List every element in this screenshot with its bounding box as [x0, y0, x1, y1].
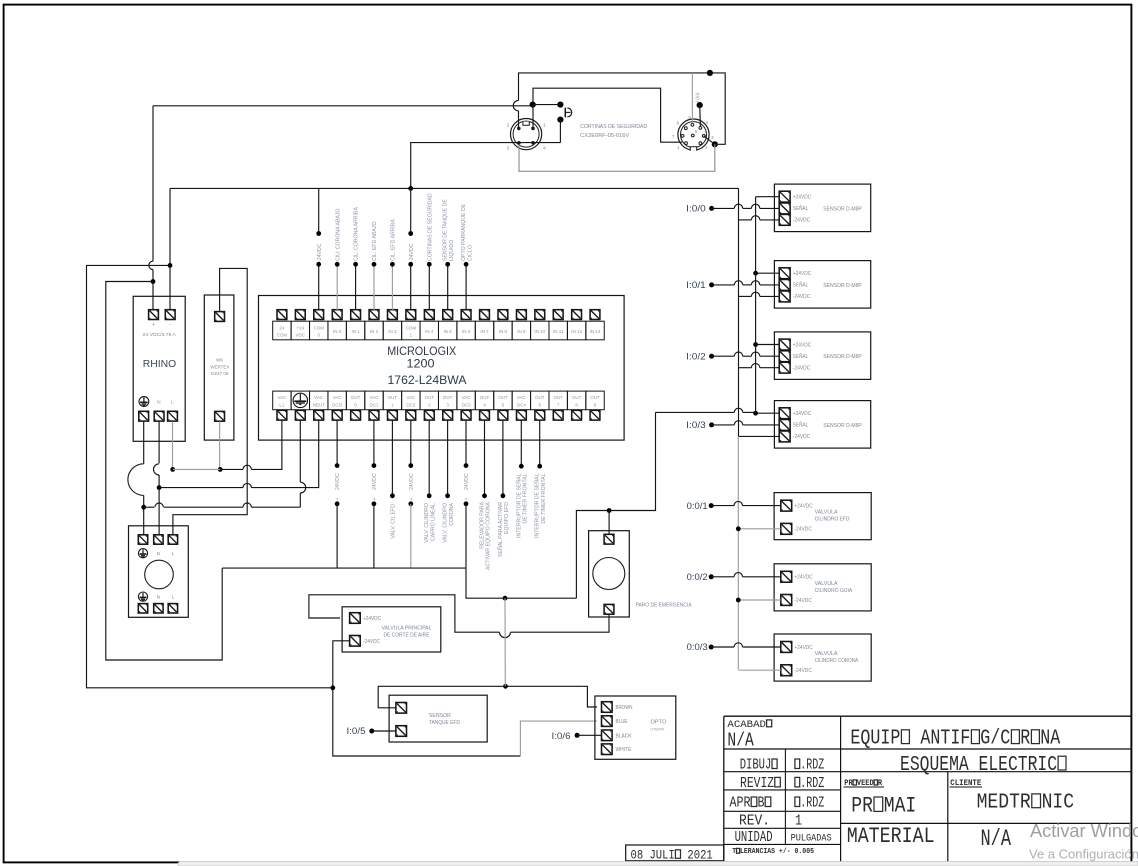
svg-text:L1: L1 — [279, 402, 285, 407]
svg-text:OPTO PARRANQUE DE: OPTO PARRANQUE DE — [461, 203, 467, 261]
wire I:0/3 signal with hops — [712, 424, 735, 426]
svg-text:I:0/0: I:0/0 — [686, 204, 706, 214]
svg-text:EQUIPO EFD: EQUIPO EFD — [504, 502, 510, 534]
wire -24V left loop to valve node — [87, 265, 331, 687]
svg-text:+: + — [464, 497, 470, 500]
svg-text:6: 6 — [677, 121, 680, 126]
wire PS1 N down to inlet N — [158, 422, 160, 464]
svg-text:ACTIVAR EQUIPO CORONA: ACTIVAR EQUIPO CORONA — [486, 501, 492, 569]
svg-text:4: 4 — [706, 120, 709, 125]
svg-text:4: 4 — [543, 146, 546, 152]
svg-text:VAC: VAC — [406, 395, 416, 400]
wire grey riser to OPTO BLUE — [520, 721, 597, 756]
svg-text:BROWN: BROWN — [616, 705, 633, 711]
svg-text:-24VDC: -24VDC — [794, 598, 812, 604]
svg-text:PULGADAS: PULGADAS — [791, 832, 832, 844]
svg-text:INTERRUPTOR DE SEÑAL: INTERRUPTOR DE SEÑAL — [515, 473, 522, 538]
wire 0:0/1 to +24 terminal with hop — [711, 505, 734, 507]
svg-text:N/A: N/A — [727, 731, 754, 752]
wire X2 pin4 I 0/4 stub — [699, 105, 702, 126]
wire +24V loop around inlet to DC rail — [106, 282, 222, 661]
svg-text:CIL. EFD ARRIBA: CIL. EFD ARRIBA — [391, 219, 397, 261]
svg-text:IN 9: IN 9 — [517, 329, 526, 334]
svg-text:-24VDC: -24VDC — [793, 434, 811, 440]
svg-text:-24VDC: -24VDC — [363, 639, 380, 645]
svg-text:CILINDRO CORONA: CILINDRO CORONA — [815, 658, 859, 664]
svg-text:I:0/2: I:0/2 — [686, 351, 706, 361]
svg-text:0:0/2: 0:0/2 — [687, 572, 708, 582]
svg-text:IN 2: IN 2 — [370, 329, 379, 334]
svg-text:IN 8: IN 8 — [499, 329, 508, 334]
title text APROBO O.RDZ — [730, 794, 772, 811]
title text EQUIPO ANTIFOG/CORONA — [850, 726, 1060, 750]
wire OUT5 grey drop to y686 — [504, 598, 506, 686]
svg-text:CARRO LINEAL: CARRO LINEAL — [430, 503, 436, 541]
svg-text:2: 2 — [705, 145, 708, 150]
svg-text:IN 13: IN 13 — [590, 329, 601, 334]
AC power inlet J1 body — [129, 526, 189, 618]
wire PS1 L grey down — [172, 422, 174, 470]
wire X2 pin5 grey drop — [691, 73, 693, 124]
svg-text:2: 2 — [507, 123, 510, 129]
wire Y1 -24 to -24 loop node and OPTO blue/white — [333, 641, 521, 756]
svg-text:IN 0: IN 0 — [333, 329, 342, 334]
svg-text:+: + — [335, 497, 341, 500]
wire S1 -24 feed with hop — [739, 295, 752, 297]
wire +24 feed to curtain top rail — [153, 105, 533, 107]
svg-text:24VDC: 24VDC — [335, 473, 341, 490]
wire VAC DC0 column +24VDC — [336, 420, 338, 465]
svg-text:CORTINAS DE SEGURIDAD: CORTINAS DE SEGURIDAD — [580, 124, 647, 130]
wire y686 to OPTO BROWN — [583, 686, 597, 707]
svg-text:0:0/3: 0:0/3 — [687, 642, 708, 652]
svg-text:+24VDC: +24VDC — [363, 616, 381, 622]
sensor B1 SENSOR TANQUE EFD body — [389, 695, 487, 742]
svg-text:L: L — [172, 595, 175, 600]
svg-text:N/A: N/A — [981, 827, 1012, 853]
wire net sensor +24VDC rail x755 — [755, 197, 757, 414]
wire OUT5 SENAL PARA ACTIVAR EQUIPO EFD — [502, 420, 504, 496]
svg-text:DE CORTE DE AIRE: DE CORTE DE AIRE — [384, 633, 431, 639]
PS1 input ground symbol — [139, 397, 149, 407]
wire OUT6 INTERRUPTOR DE SENAL DE TIMER FRONTAL — [539, 420, 541, 466]
sensor S1 I:0/1 SENSOR D-M8P body — [774, 261, 870, 309]
svg-text:VAC: VAC — [462, 395, 472, 400]
svg-text:BLACK: BLACK — [616, 733, 633, 739]
S1 terminal -24VDC — [779, 291, 790, 302]
svg-text:1: 1 — [795, 812, 802, 829]
PS1 output terminals + and - — [149, 310, 159, 320]
svg-text:MEDTR NIC: MEDTR NIC — [977, 791, 1074, 815]
wire net -24VDC rail x738 black part — [738, 188, 740, 436]
svg-text:ESQUEMA ELECTRIC: ESQUEMA ELECTRIC — [900, 752, 1067, 777]
svg-text:DZ47 06: DZ47 06 — [211, 371, 229, 376]
wire IN3 CIL. EFD ARRIBA — [391, 264, 393, 310]
svg-text:VALVULA: VALVULA — [815, 510, 839, 516]
wire CB1 bottom grey down — [219, 422, 221, 470]
S1 terminal +24VDC — [779, 268, 790, 279]
svg-text:SEÑAL PARA ACTIVAR: SEÑAL PARA ACTIVAR — [497, 502, 504, 557]
svg-text:OUT: OUT — [535, 395, 545, 400]
svg-text:SENSOR D-M8P: SENSOR D-M8P — [823, 354, 862, 360]
wire net -24VDC rail grey part — [737, 436, 739, 669]
wire PS1 gnd down with big arc — [143, 422, 145, 464]
wire X1 pin3 pin4 to COM1 node — [411, 143, 561, 189]
svg-text:+24VDC: +24VDC — [794, 503, 813, 509]
wire X2 pin3 stub — [704, 136, 715, 144]
svg-text:7: 7 — [672, 134, 675, 139]
sensor S2 I:0/2 SENSOR D-M8P body — [774, 332, 870, 380]
svg-text:IN 6: IN 6 — [462, 329, 471, 334]
solenoid valve V1 VALVULA CILINDRO EFD body — [774, 493, 871, 540]
wire PS1 minus riser to -24 rail — [169, 188, 171, 310]
svg-text:I:0/3: I:0/3 — [686, 420, 706, 430]
wire pushbutton branch — [533, 104, 561, 106]
wire IN1 CIL. CORONA ARRIBA — [355, 264, 357, 310]
svg-text:OPTO: OPTO — [650, 720, 666, 726]
wire S2 +24 feed — [756, 344, 780, 346]
svg-text:3: 3 — [711, 135, 714, 140]
title text TOLERANCIAS — [732, 848, 814, 857]
wire X1 pin2 riser and top rail y73 — [518, 111, 520, 128]
wire S3 -24 feed with hop — [739, 435, 780, 437]
svg-text:WERTEX: WERTEX — [210, 364, 229, 369]
svg-text:DC3: DC3 — [462, 402, 471, 407]
S3 terminal +24VDC — [779, 408, 790, 419]
V2 terminal -24VDC — [781, 595, 792, 606]
PLC top terminal squares 24COM..IN13 — [277, 310, 600, 320]
svg-text:WHITE: WHITE — [616, 747, 633, 753]
svg-text:SENSOR D-M8P: SENSOR D-M8P — [823, 206, 862, 212]
wire IN4 CORTINAS DE SEGURIDAD — [428, 264, 430, 310]
svg-text:VALV. CILINDRO: VALV. CILINDRO — [443, 503, 449, 543]
solenoid valve V2 VALVULA CILINDRO GUIA body — [774, 564, 871, 611]
svg-text:+24VDC: +24VDC — [794, 645, 813, 651]
svg-text:VALV. CILINDRO: VALV. CILINDRO — [424, 503, 430, 543]
scrollbar strip bottom — [178, 862, 1138, 866]
S2 terminal -24VDC — [779, 362, 790, 373]
SB2 bottom terminal — [604, 604, 614, 614]
S3 terminal SENAL — [779, 420, 790, 431]
svg-text:VAC: VAC — [370, 395, 380, 400]
B2 terminal WHITE — [602, 744, 613, 755]
wire IN5 SENSOR DE TANQUE DE LIQUIDO — [447, 264, 449, 310]
PLC top terminal label cells — [273, 321, 605, 340]
svg-text:N: N — [157, 551, 160, 556]
svg-text:24: 24 — [279, 325, 285, 330]
svg-text:-24VDC: -24VDC — [794, 527, 812, 533]
svg-text:1762-L24BWA: 1762-L24BWA — [388, 375, 467, 387]
svg-text:N: N — [157, 400, 161, 406]
svg-text:08 JULI 2021: 08 JULI 2021 — [631, 847, 713, 862]
B1 terminal upper — [396, 703, 407, 714]
S0 terminal -24VDC — [779, 214, 790, 225]
svg-text:-24VDC: -24VDC — [409, 243, 415, 262]
svg-text:5: 5 — [688, 115, 691, 120]
svg-text:+24VDC: +24VDC — [793, 342, 812, 348]
svg-text:COM: COM — [406, 325, 417, 330]
svg-text:VAC: VAC — [333, 395, 343, 400]
PLC U1 MicroLogix 1200 1762-L24BWA body — [259, 296, 625, 441]
J1 lower terminals GND N L — [138, 604, 147, 613]
wire X1 pin1 net over to X2 pin1 — [533, 88, 682, 142]
svg-text:OUT: OUT — [425, 395, 435, 400]
wire OUT1 VALV. CIL EFD — [391, 420, 393, 496]
svg-text:+24VDC: +24VDC — [793, 271, 812, 277]
title text MATERIAL — [847, 824, 935, 849]
S2 terminal SENAL — [779, 351, 790, 362]
CB1 bottom terminal — [215, 411, 225, 421]
svg-text:VAC: VAC — [314, 395, 324, 400]
wire 0:0/3 to +24 terminal with hop — [711, 646, 734, 648]
V1 terminal +24VDC — [781, 500, 792, 511]
wire OUT3 VALV CILINDRO CORONA — [447, 420, 449, 496]
J1 lower ground symbol and N L labels — [138, 592, 147, 601]
svg-text:SENSOR D-M8P: SENSOR D-M8P — [823, 423, 862, 429]
svg-text:I 0/4: I 0/4 — [696, 93, 702, 103]
svg-text:SEÑAL: SEÑAL — [793, 422, 809, 429]
svg-text:L: L — [172, 551, 175, 556]
svg-text:24VDC: 24VDC — [464, 473, 470, 490]
svg-text:Activar Windows: Activar Windows — [1030, 821, 1138, 841]
wire S0 -24 feed with hop — [739, 219, 752, 221]
wire OUT2 VALV CILINDRO CARRO LINEAL — [428, 420, 430, 496]
solenoid valve Y1 VALVULA PRINCIPAL DE CORTE DE AIRE body — [342, 607, 441, 652]
svg-text:OUT: OUT — [480, 395, 490, 400]
svg-text:1: 1 — [677, 145, 680, 150]
V3 terminal +24VDC — [781, 642, 792, 653]
title text PROMAI — [851, 794, 916, 819]
wire S3 +24 feed — [756, 412, 780, 414]
emergency stop SB2 PARO DE EMERGENCIA body — [589, 531, 630, 617]
svg-text:ACABAD: ACABAD — [727, 719, 772, 731]
B2 terminal BROWN — [602, 702, 613, 713]
svg-text:CORONA: CORONA — [449, 502, 455, 525]
svg-text:-24VDC: -24VDC — [794, 668, 812, 674]
svg-text:BLUE: BLUE — [616, 719, 629, 725]
svg-text:I:0/5: I:0/5 — [347, 726, 366, 736]
svg-text:I:0/1: I:0/1 — [686, 280, 706, 290]
svg-text:CICLO: CICLO — [467, 245, 473, 261]
svg-text:1200: 1200 — [407, 358, 435, 370]
power supply PS1 RHINO body — [133, 296, 185, 441]
svg-text:CILINDRO GUIA: CILINDRO GUIA — [815, 588, 853, 594]
PS1 input terminals GND N L — [139, 411, 149, 421]
svg-text:+: + — [409, 497, 415, 500]
Y1 terminal -24VDC — [350, 636, 361, 647]
title header PROVEEDOR — [844, 780, 882, 788]
V3 terminal -24VDC — [781, 665, 792, 676]
J1 plug circle — [145, 560, 174, 589]
J1 upper terminals GND N L — [138, 535, 147, 544]
svg-text:UNIDAD: UNIDAD — [735, 828, 773, 845]
svg-text:TANQUE EFD: TANQUE EFD — [429, 720, 460, 726]
svg-text:SENSOR DE TANQUE DE: SENSOR DE TANQUE DE — [443, 199, 449, 261]
S0 terminal +24VDC — [779, 191, 790, 202]
emergency contact SB1 on curtain circuit — [565, 108, 571, 118]
svg-text:VAC: VAC — [277, 395, 287, 400]
svg-text:PARO DE EMERGENCIA: PARO DE EMERGENCIA — [636, 603, 693, 609]
svg-text:EQUIP ANTIF G/C R NA: EQUIP ANTIF G/C R NA — [850, 726, 1060, 750]
wire V3 -24 grey feed — [738, 669, 781, 671]
svg-text:SEÑAL: SEÑAL — [793, 282, 809, 289]
svg-text:CIU. CORONA ABAJO: CIU. CORONA ABAJO — [335, 209, 341, 261]
V2 terminal +24VDC — [781, 571, 792, 582]
svg-text:DE TIMER FRONTAL: DE TIMER FRONTAL — [541, 473, 547, 523]
svg-text:24VDC: 24VDC — [372, 473, 378, 490]
svg-text:NEUT: NEUT — [313, 402, 326, 407]
svg-text:+24VDC: +24VDC — [793, 411, 812, 417]
svg-text:IN 10: IN 10 — [534, 329, 545, 334]
title text UNIDAD PULGADAS — [735, 828, 773, 845]
svg-text:DE TIMER FRONTAL: DE TIMER FRONTAL — [523, 473, 529, 523]
svg-text:IN 1: IN 1 — [351, 329, 360, 334]
svg-text:OUT: OUT — [590, 395, 600, 400]
SB2 top terminal — [604, 534, 614, 544]
svg-text:OUT: OUT — [498, 395, 508, 400]
svg-text:-24VDC: -24VDC — [793, 366, 811, 372]
wire I:0/2 signal with hops — [712, 355, 735, 357]
svg-text:+: + — [372, 497, 378, 500]
svg-text:I:0/6: I:0/6 — [552, 731, 571, 741]
svg-text:SEÑAL: SEÑAL — [793, 353, 809, 360]
svg-text:PR MAI: PR MAI — [851, 794, 916, 819]
connector X1 left safety curtain 4-pin — [510, 119, 541, 150]
svg-text:WK: WK — [216, 358, 223, 363]
wire S0 +24 feed — [756, 196, 780, 198]
wire y598 up to y510 line to PARO and sensors — [576, 412, 655, 598]
svg-text:RELEVADOR PARA: RELEVADOR PARA — [480, 501, 486, 548]
svg-text:IN 4: IN 4 — [425, 329, 434, 334]
svg-text:-24VDC: -24VDC — [317, 243, 323, 262]
svg-text:24 VDC/3.75 A: 24 VDC/3.75 A — [143, 332, 176, 337]
wire net +24VDC rail y568 — [222, 567, 466, 569]
B1 terminal lower I:0/5 — [396, 726, 407, 737]
title text MEDTRONIC — [977, 791, 1074, 815]
S3 terminal -24VDC — [779, 431, 790, 442]
title text ACABADO N/A — [727, 719, 772, 731]
wire S2 -24 feed with hop — [739, 367, 752, 369]
sensor S3 I:0/3 SENSOR D-M8P body — [774, 401, 870, 449]
wire IN2 CIL. EFD ABAJO — [373, 264, 375, 310]
svg-text:DCO: DCO — [332, 402, 342, 407]
svg-text:L: L — [171, 400, 174, 406]
title block date box 08 JULIO 2021 — [626, 845, 724, 861]
svg-text:CIL. CORONA ARRIBA: CIL. CORONA ARRIBA — [354, 207, 360, 261]
svg-text:+24: +24 — [296, 325, 304, 330]
svg-text:24VDC: 24VDC — [409, 473, 415, 490]
svg-text:IN 11: IN 11 — [553, 329, 564, 334]
wire VAC DC3 column +24VDC — [465, 420, 467, 465]
wire PARO top feed — [608, 511, 610, 535]
wire COM1 -24VDC column — [410, 188, 412, 233]
S2 terminal +24VDC — [779, 339, 790, 350]
wire net -24VDC rail y188 — [170, 187, 739, 189]
svg-text:VALVULA: VALVULA — [815, 651, 839, 657]
svg-text:-24VDC: -24VDC — [793, 294, 811, 300]
title text REV. 1 — [739, 814, 770, 830]
svg-text:T LERANCIAS +/- 0.005: T LERANCIAS +/- 0.005 — [732, 848, 814, 857]
solenoid valve V3 VALVULA CILINDRO CORONA body — [774, 634, 871, 681]
svg-text:DC2: DC2 — [406, 402, 415, 407]
svg-text:OUT: OUT — [388, 395, 398, 400]
Y1 terminal +24VDC — [350, 613, 361, 624]
svg-text:CILINDRO EFD: CILINDRO EFD — [815, 517, 850, 523]
svg-text:IN 3: IN 3 — [388, 329, 397, 334]
wire OUT4 RELEVADOR PARA ACTIVAR EQUIPO CORONA — [484, 420, 486, 496]
wire I:0/0 signal with hops — [712, 207, 735, 209]
S1 terminal SENAL — [779, 280, 790, 291]
svg-text:COM: COM — [277, 332, 288, 337]
svg-text:SENSOR D-M8P: SENSOR D-M8P — [823, 283, 862, 289]
svg-text:CIL. EFD ABAJO: CIL. EFD ABAJO — [372, 222, 378, 262]
svg-text:0:0/1: 0:0/1 — [687, 501, 708, 511]
svg-text:DC1: DC1 — [369, 402, 378, 407]
svg-text:VALVULA: VALVULA — [815, 581, 839, 587]
wire I:0/3 +24 long feed with hop — [656, 411, 735, 413]
wire VAC DC4 INTERRUPTOR DE SENAL DE TIMER FRONTAL — [520, 420, 522, 466]
svg-text:3: 3 — [507, 146, 510, 152]
wire SB2 bottom to main air valve +24 — [511, 614, 610, 632]
title text N/A bottom — [981, 827, 1012, 853]
J1 upper ground symbol and N L labels — [138, 549, 147, 558]
svg-text:CX2E0RF-05-016V: CX2E0RF-05-016V — [580, 133, 629, 139]
B2 terminal BLUE — [602, 716, 613, 727]
PLC bottom terminal label cells — [273, 391, 605, 410]
svg-text:VALVULA PRINCIPAL: VALVULA PRINCIPAL — [382, 626, 432, 632]
wire VAC DC2 column +24VDC — [410, 420, 412, 465]
wire IN6 OPTO PARRANQUE DE CICLO — [465, 264, 467, 310]
svg-text:+24VDC: +24VDC — [794, 575, 813, 581]
wire bottom loop X1 pin3 to X2 pin2 grey — [519, 144, 715, 171]
wire IN0 CIL. CORONA ABAJO — [336, 264, 338, 310]
svg-text:VALV. CIL EFD: VALV. CIL EFD — [391, 504, 397, 539]
PLC bottom terminal squares VAC L1..OUT9 — [277, 410, 600, 420]
V1 terminal -24VDC — [781, 523, 792, 534]
wire V2 -24 grey feed — [738, 599, 781, 601]
svg-text:SEÑAL: SEÑAL — [793, 205, 809, 212]
title text DIBUJO O.RDZ — [740, 756, 778, 773]
svg-text:COM: COM — [313, 325, 324, 330]
svg-text:LIQUIDO: LIQUIDO — [449, 240, 455, 261]
svg-text:OUT: OUT — [553, 395, 563, 400]
wire VAC DC1 column +24VDC — [373, 420, 375, 465]
wire COM0 -24VDC column — [318, 188, 320, 233]
svg-text:N: N — [157, 595, 160, 600]
wire B1 upper to y686 line — [378, 686, 583, 708]
svg-text:VAC: VAC — [517, 395, 527, 400]
wire 0:0/2 to +24 terminal with hop — [711, 576, 734, 578]
svg-text:-24VDC: -24VDC — [793, 218, 811, 224]
title text REVIZO O.RDZ — [740, 775, 781, 792]
svg-text:OUT: OUT — [572, 395, 582, 400]
svg-text:MICROLOGIX: MICROLOGIX — [387, 346, 456, 358]
svg-text:INTERRUPTOR DE SEÑAL: INTERRUPTOR DE SEÑAL — [534, 473, 541, 538]
wire CB1 top loop to inlet L — [173, 268, 247, 534]
svg-text:+24VDC: +24VDC — [793, 195, 812, 201]
svg-text:IN 12: IN 12 — [571, 329, 582, 334]
wire grey link RHINO L to CB1 bottom — [173, 468, 221, 470]
circuit breaker CB1 WK WERTEX DZ47 06 body — [204, 295, 234, 440]
junction dot COM1 node on rail — [408, 186, 413, 191]
svg-text:Ve a Configuración para activa: Ve a Configuración para activar Windows. — [1029, 847, 1138, 862]
svg-text:IN 5: IN 5 — [444, 329, 453, 334]
opto sensor B2 OPTO OTBVP6 body — [595, 696, 676, 759]
svg-text:DC4: DC4 — [517, 402, 526, 407]
wire GND net to PLC gnd terminal — [144, 506, 155, 508]
svg-text:OTBVP6: OTBVP6 — [650, 727, 665, 732]
S0 terminal SENAL — [779, 203, 790, 214]
